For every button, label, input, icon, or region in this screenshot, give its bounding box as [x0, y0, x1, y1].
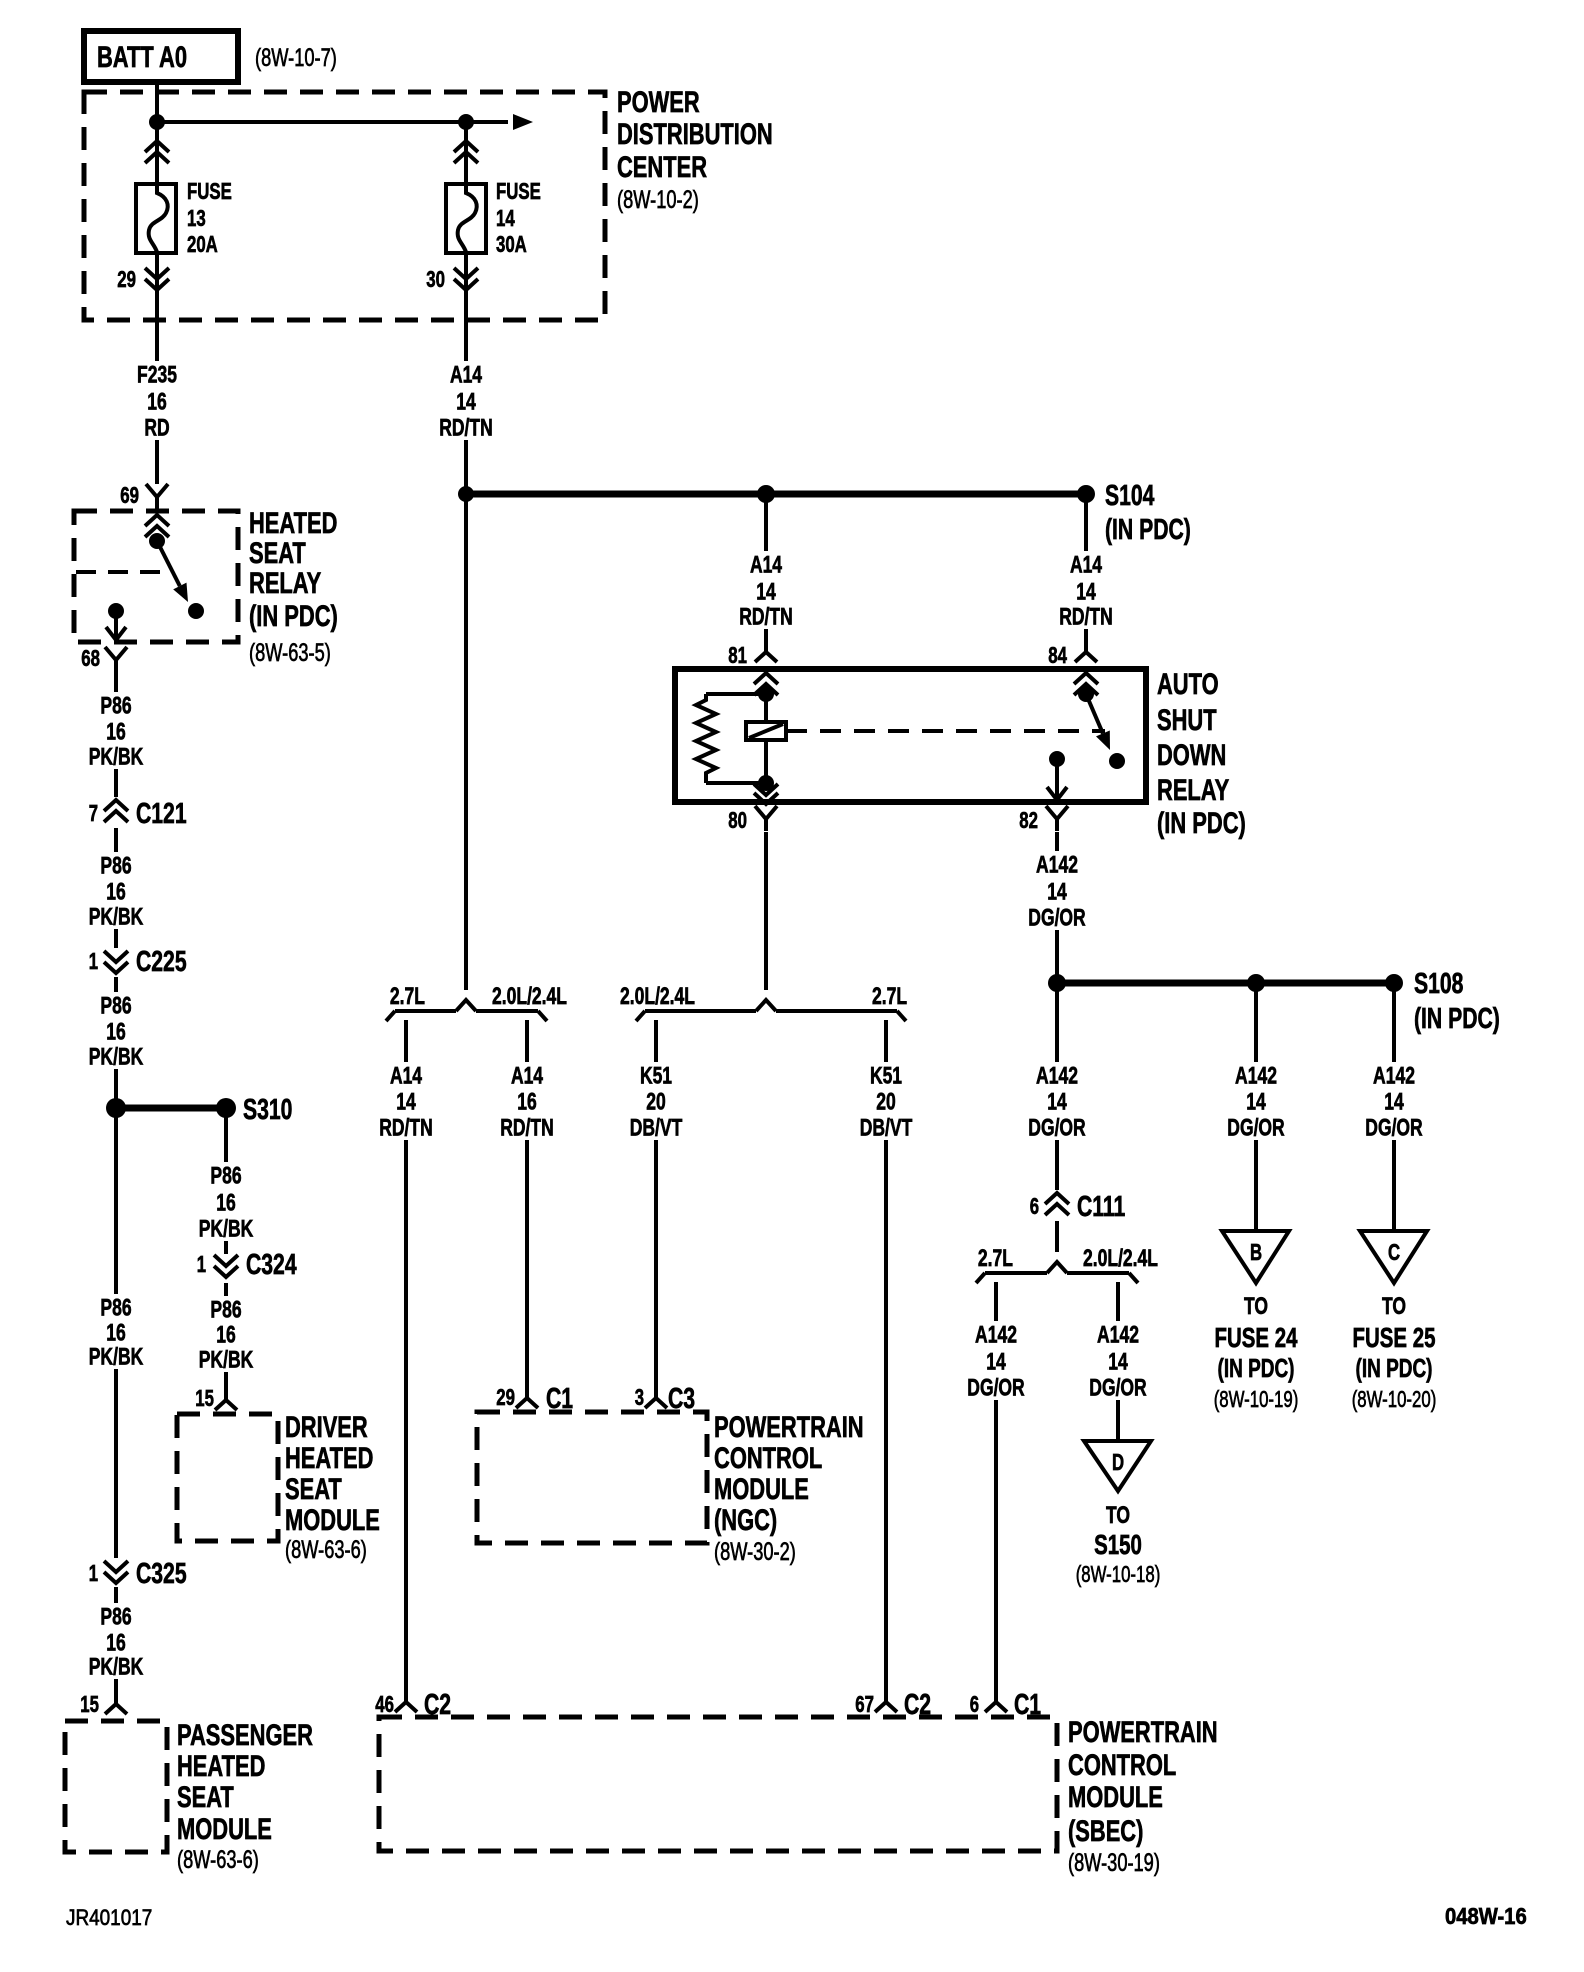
splice S108 bus	[1057, 980, 1394, 987]
svg-text:S108: S108	[1414, 968, 1463, 1000]
svg-text:P86: P86	[210, 1296, 241, 1323]
svg-text:(IN PDC): (IN PDC)	[249, 600, 338, 633]
node junction right fuse	[458, 114, 474, 130]
svg-text:DG/OR: DG/OR	[1028, 1114, 1085, 1141]
svg-text:14: 14	[756, 578, 776, 605]
svg-text:16: 16	[106, 1018, 126, 1045]
svg-text:(SBEC): (SBEC)	[1068, 1815, 1143, 1848]
svg-text:14: 14	[1384, 1088, 1404, 1115]
relay mechanical link dashed	[76, 570, 172, 574]
svg-text:(8W-30-19): (8W-30-19)	[1068, 1849, 1160, 1877]
pin 82	[1019, 806, 1068, 833]
svg-text:16: 16	[216, 1321, 236, 1348]
fuse F13	[136, 184, 176, 253]
svg-text:MODULE: MODULE	[1068, 1781, 1163, 1814]
svg-text:PK/BK: PK/BK	[199, 1215, 254, 1242]
svg-text:PK/BK: PK/BK	[89, 1653, 144, 1680]
wire label F235 16 RD	[133, 361, 181, 441]
svg-text:BATT A0: BATT A0	[97, 41, 187, 74]
fuse 13 label	[187, 178, 232, 257]
pin 29 chevrons	[117, 266, 169, 292]
node S108 a	[1048, 974, 1066, 992]
pin 29 C1	[496, 1383, 573, 1415]
power distribution center box	[84, 92, 605, 320]
svg-text:C225: C225	[136, 946, 187, 978]
engine label 2.7L first	[390, 983, 425, 1010]
svg-text:(8W-10-18): (8W-10-18)	[1076, 1561, 1161, 1587]
wire F235 PDC to relay pin 69	[155, 320, 159, 484]
wire label P86 16 PK/BK (5)	[85, 1603, 148, 1680]
svg-text:1: 1	[89, 1560, 98, 1586]
svg-text:16: 16	[106, 1319, 126, 1346]
svg-text:2.7L: 2.7L	[390, 983, 425, 1010]
passenger heated seat module label	[177, 1719, 313, 1874]
node A14 junction	[458, 486, 474, 502]
wire label P86 16 PK/BK (2)	[85, 852, 148, 930]
engine label 2.0L/2.4L right	[1083, 1245, 1158, 1272]
wire label A14 14 RD/TN (sbec)	[375, 1062, 437, 1141]
svg-text:RD/TN: RD/TN	[1059, 603, 1113, 630]
engine label 2.7L right	[872, 983, 907, 1010]
svg-text:DG/OR: DG/OR	[1365, 1114, 1422, 1141]
svg-text:F235: F235	[137, 361, 177, 388]
svg-text:14: 14	[396, 1088, 416, 1115]
asd pin 80 exit chevrons	[754, 784, 778, 804]
off-page connector C	[1360, 1231, 1427, 1283]
svg-text:(8W-30-2): (8W-30-2)	[714, 1538, 796, 1566]
off-page connector D	[1084, 1441, 1151, 1491]
svg-text:POWERTRAIN: POWERTRAIN	[714, 1411, 864, 1444]
svg-text:69: 69	[120, 482, 139, 508]
svg-text:82: 82	[1019, 807, 1038, 833]
relay output arrow to pin 68	[106, 611, 126, 640]
svg-text:FUSE: FUSE	[496, 178, 541, 204]
svg-text:DG/OR: DG/OR	[967, 1374, 1024, 1401]
svg-text:16: 16	[106, 1629, 126, 1656]
wire PDC bus	[157, 114, 533, 130]
svg-text:20: 20	[876, 1088, 896, 1115]
svg-text:MODULE: MODULE	[714, 1473, 809, 1506]
off-page B label	[1214, 1293, 1299, 1412]
svg-text:30A: 30A	[496, 231, 527, 257]
svg-text:RD/TN: RD/TN	[500, 1114, 554, 1141]
pin 3 C3	[635, 1383, 695, 1415]
wire label P86 16 PK/BK (1)	[85, 692, 148, 770]
svg-text:20: 20	[646, 1088, 666, 1115]
wire A14 S104 to split	[464, 494, 468, 990]
svg-text:(IN PDC): (IN PDC)	[1414, 1003, 1500, 1035]
powertrain control module NGC box	[477, 1412, 707, 1543]
pin 46 C2	[375, 1688, 451, 1721]
svg-text:TO: TO	[1106, 1502, 1130, 1529]
auto shut down relay box	[675, 669, 1146, 802]
svg-text:29: 29	[496, 1384, 515, 1410]
svg-text:P86: P86	[100, 992, 131, 1019]
connector C225	[89, 946, 187, 978]
connector chevrons above fuse 14	[454, 141, 478, 163]
wire K51 to SBEC C2	[884, 1056, 888, 1688]
splice S310	[106, 1094, 292, 1126]
wire label K51 20 DB/VT (sbec)	[856, 1062, 917, 1141]
wire label P86 16 PK/BK (7)	[195, 1296, 258, 1373]
heated seat relay box	[74, 511, 238, 642]
svg-text:(IN PDC): (IN PDC)	[1356, 1353, 1433, 1383]
wire K51 pin 80 to split	[764, 832, 768, 990]
svg-text:14: 14	[1047, 878, 1067, 905]
svg-text:DG/OR: DG/OR	[1089, 1374, 1146, 1401]
svg-text:FUSE: FUSE	[187, 178, 232, 204]
wire label A14 14 RD/TN (81)	[735, 551, 797, 630]
svg-text:DG/OR: DG/OR	[1227, 1114, 1284, 1141]
off-page connector B	[1222, 1231, 1289, 1283]
svg-text:2.0L/2.4L: 2.0L/2.4L	[492, 983, 567, 1010]
splice S108 label	[1414, 968, 1500, 1035]
driver heated seat module box	[177, 1414, 278, 1541]
svg-text:S104: S104	[1105, 480, 1154, 512]
relay pin 69 entry chevrons	[145, 515, 169, 537]
svg-text:16: 16	[106, 878, 126, 905]
driver heated seat module label	[285, 1411, 380, 1564]
svg-text:SEAT: SEAT	[177, 1781, 234, 1814]
svg-text:(8W-63-6): (8W-63-6)	[285, 1536, 367, 1564]
svg-text:16: 16	[106, 718, 126, 745]
svg-text:14: 14	[986, 1348, 1006, 1375]
wire A142 to triangle C	[1392, 983, 1396, 1231]
pin 6 C1	[970, 1688, 1041, 1721]
svg-text:(IN PDC): (IN PDC)	[1218, 1353, 1295, 1383]
wire P86 S310 to driver module	[224, 1108, 228, 1386]
pin 69	[120, 482, 168, 509]
wire P86 relay to S310	[114, 672, 118, 1108]
svg-text:PK/BK: PK/BK	[89, 1343, 144, 1370]
svg-text:3: 3	[635, 1384, 644, 1410]
svg-text:SEAT: SEAT	[249, 537, 306, 570]
svg-text:(IN PDC): (IN PDC)	[1157, 807, 1246, 840]
svg-text:67: 67	[855, 1691, 874, 1717]
svg-text:14: 14	[1047, 1088, 1067, 1115]
svg-text:RELAY: RELAY	[249, 567, 321, 600]
wire A142 to SBEC C1	[994, 1318, 998, 1688]
svg-text:(8W-63-5): (8W-63-5)	[249, 639, 331, 667]
svg-text:P86: P86	[100, 1294, 131, 1321]
svg-text:29: 29	[117, 266, 136, 292]
svg-text:2.7L: 2.7L	[872, 983, 907, 1010]
wire label A14 14 RD/TN (pdc)	[435, 361, 497, 441]
svg-text:PK/BK: PK/BK	[89, 1043, 144, 1070]
wire node to fuse 14	[464, 122, 468, 184]
svg-text:C: C	[1388, 1239, 1400, 1265]
svg-text:(IN PDC): (IN PDC)	[1105, 514, 1191, 546]
svg-text:K51: K51	[640, 1062, 672, 1089]
svg-text:K51: K51	[870, 1062, 902, 1089]
svg-text:DRIVER: DRIVER	[285, 1411, 368, 1444]
svg-text:A142: A142	[1097, 1321, 1139, 1348]
wire label A142 14 DG/OR (c)	[1361, 1062, 1426, 1141]
svg-text:S310: S310	[243, 1094, 292, 1126]
relay common contact dot	[149, 533, 165, 549]
engine split K51	[636, 1000, 906, 1056]
page reference (8W-10-7)	[255, 44, 337, 72]
svg-text:A14: A14	[511, 1062, 544, 1089]
svg-text:(8W-10-20): (8W-10-20)	[1352, 1386, 1437, 1412]
wire K51 to NGC C3	[654, 1056, 658, 1384]
svg-text:14: 14	[456, 388, 476, 415]
svg-text:CONTROL: CONTROL	[714, 1442, 822, 1475]
footer JR401017	[66, 1905, 152, 1930]
svg-text:1: 1	[89, 948, 98, 974]
svg-text:DOWN: DOWN	[1157, 739, 1226, 772]
node S104	[1077, 485, 1095, 503]
svg-text:PASSENGER: PASSENGER	[177, 1719, 313, 1752]
svg-text:MODULE: MODULE	[285, 1504, 380, 1537]
svg-text:TO: TO	[1382, 1293, 1406, 1320]
fuse 14 label	[496, 178, 541, 257]
svg-text:DB/VT: DB/VT	[630, 1114, 683, 1141]
svg-text:1: 1	[197, 1251, 206, 1277]
svg-text:POWERTRAIN: POWERTRAIN	[1068, 1716, 1218, 1749]
svg-text:JR401017: JR401017	[66, 1905, 152, 1930]
svg-text:30: 30	[426, 266, 445, 292]
svg-text:16: 16	[216, 1189, 236, 1216]
svg-text:PK/BK: PK/BK	[199, 1346, 254, 1373]
wire A142 to triangle B	[1254, 983, 1258, 1231]
relay switch arm	[157, 541, 188, 602]
wire label P86 16 PK/BK (6)	[195, 1162, 258, 1242]
engine label 2.7L left	[978, 1245, 1013, 1272]
asd switch top dot	[1078, 686, 1094, 702]
wire A14 to SBEC C2	[404, 1056, 408, 1688]
powertrain control module SBEC label	[1068, 1716, 1218, 1877]
svg-text:14: 14	[1246, 1088, 1266, 1115]
svg-text:13: 13	[187, 205, 206, 231]
wire label A142 14 DG/OR (sbec)	[963, 1321, 1028, 1401]
pin 84	[1048, 638, 1097, 668]
svg-text:A142: A142	[1036, 851, 1078, 878]
wire BATT A0 to node	[155, 82, 159, 122]
svg-text:RD/TN: RD/TN	[739, 603, 793, 630]
asd relay coil	[746, 722, 786, 740]
svg-text:6: 6	[1030, 1193, 1039, 1219]
pin 80	[728, 806, 777, 833]
asd coil bottom dot	[758, 775, 774, 791]
asd mechanical link dashed	[786, 729, 1105, 733]
wire label K51 20 DB/VT (ngc)	[626, 1062, 687, 1141]
wire A14 to NGC C1	[525, 1056, 529, 1384]
fuse F14	[446, 184, 486, 253]
svg-text:RELAY: RELAY	[1157, 774, 1229, 807]
svg-text:C324: C324	[246, 1249, 297, 1281]
svg-text:A142: A142	[1373, 1062, 1415, 1089]
wire fuse 14 to pin 30	[464, 253, 468, 320]
connector C121	[89, 797, 187, 830]
svg-text:14: 14	[1076, 578, 1096, 605]
wire node to fuse 13	[155, 122, 159, 184]
svg-text:DISTRIBUTION: DISTRIBUTION	[617, 118, 773, 151]
svg-text:POWER: POWER	[617, 86, 700, 119]
asd switch NO dot	[1109, 753, 1125, 769]
svg-text:DB/VT: DB/VT	[860, 1114, 913, 1141]
svg-text:SHUT: SHUT	[1157, 704, 1217, 737]
engine split A14	[386, 1000, 547, 1056]
svg-text:15: 15	[80, 1691, 99, 1717]
svg-text:6: 6	[970, 1691, 979, 1717]
node S104 branch 81	[757, 485, 775, 503]
svg-text:P86: P86	[100, 1603, 131, 1630]
splice S104 bus	[466, 491, 1086, 498]
splice S104 label	[1105, 480, 1191, 546]
svg-text:80: 80	[728, 807, 747, 833]
wire A14 to pin 84	[1084, 494, 1088, 638]
svg-text:A142: A142	[1036, 1062, 1078, 1089]
wire label A142 14 DG/OR (d)	[1085, 1321, 1150, 1401]
svg-text:S150: S150	[1094, 1529, 1142, 1560]
svg-text:RD/TN: RD/TN	[379, 1114, 433, 1141]
svg-text:HEATED: HEATED	[249, 507, 337, 540]
svg-text:81: 81	[728, 642, 747, 668]
svg-text:FUSE 24: FUSE 24	[1215, 1322, 1298, 1353]
svg-text:SEAT: SEAT	[285, 1473, 342, 1506]
svg-text:HEATED: HEATED	[177, 1750, 265, 1783]
svg-text:TO: TO	[1244, 1293, 1268, 1320]
asd pin 82 arrow	[1047, 759, 1067, 800]
svg-text:(8W-10-7): (8W-10-7)	[255, 44, 337, 72]
wire label A142 14 DG/OR (c111)	[1024, 1062, 1089, 1141]
svg-text:(8W-10-2): (8W-10-2)	[617, 186, 699, 214]
engine label 2.0L/2.4L left	[620, 983, 695, 1010]
connector C325	[89, 1558, 187, 1590]
svg-text:048W-16: 048W-16	[1445, 1903, 1527, 1929]
power distribution center label	[617, 86, 773, 214]
wire A142 to triangle D	[1116, 1318, 1120, 1441]
wire A14 PDC to S104	[464, 320, 468, 494]
svg-text:A142: A142	[975, 1321, 1017, 1348]
heated seat relay label	[249, 507, 338, 667]
svg-text:46: 46	[375, 1691, 394, 1717]
svg-text:C121: C121	[136, 798, 187, 830]
svg-text:PK/BK: PK/BK	[89, 903, 144, 930]
svg-text:A14: A14	[750, 551, 783, 578]
wire fuse 13 to pin 29	[155, 253, 159, 320]
wire label A14 16 RD/TN (ngc)	[496, 1062, 558, 1141]
svg-text:(8W-63-6): (8W-63-6)	[177, 1846, 259, 1874]
svg-text:7: 7	[89, 800, 98, 826]
asd coil wire	[764, 694, 768, 783]
svg-text:CENTER: CENTER	[617, 151, 707, 184]
battery feed box BATT A0	[84, 31, 238, 82]
engine split A142	[976, 1262, 1138, 1318]
asd coil top dot	[758, 686, 774, 702]
svg-text:D: D	[1112, 1449, 1124, 1475]
wire label P86 16 PK/BK (3)	[85, 992, 148, 1070]
wire A142 pin 82 to S108	[1055, 832, 1059, 983]
passenger heated seat module box	[65, 1721, 167, 1852]
svg-text:16: 16	[147, 388, 167, 415]
svg-text:14: 14	[496, 205, 515, 231]
pin 68	[81, 645, 127, 672]
svg-text:P86: P86	[210, 1162, 241, 1189]
svg-text:PK/BK: PK/BK	[89, 743, 144, 770]
wire label P86 16 PK/BK (4)	[85, 1294, 148, 1370]
relay output contact dot	[108, 603, 124, 619]
svg-text:P86: P86	[100, 852, 131, 879]
svg-text:20A: 20A	[187, 231, 218, 257]
footer 048W-16	[1445, 1903, 1527, 1929]
svg-text:RD: RD	[144, 414, 169, 441]
pin 67 C2	[855, 1688, 931, 1721]
svg-text:2.0L/2.4L: 2.0L/2.4L	[1083, 1245, 1158, 1272]
engine label 2.0L/2.4L first	[492, 983, 567, 1010]
wire label A142 14 DG/OR (82)	[1024, 851, 1089, 931]
svg-text:DG/OR: DG/OR	[1028, 904, 1085, 931]
svg-text:MODULE: MODULE	[177, 1813, 272, 1846]
node S108 b	[1247, 974, 1265, 992]
pin 15 passenger	[80, 1690, 127, 1717]
node S108 c	[1385, 974, 1403, 992]
svg-text:A14: A14	[390, 1062, 423, 1089]
svg-text:68: 68	[81, 645, 100, 671]
off-page D label	[1076, 1502, 1161, 1587]
asd resistor	[696, 694, 766, 783]
asd pin 82 dot	[1049, 751, 1065, 767]
svg-text:2.0L/2.4L: 2.0L/2.4L	[620, 983, 695, 1010]
node junction left fuse	[149, 114, 165, 130]
svg-text:15: 15	[195, 1385, 214, 1411]
off-page C label	[1352, 1293, 1437, 1412]
pin 81	[728, 638, 777, 668]
svg-text:RD/TN: RD/TN	[439, 414, 493, 441]
asd switch arm	[1086, 694, 1110, 750]
svg-text:A142: A142	[1235, 1062, 1277, 1089]
svg-text:C111: C111	[1077, 1191, 1125, 1223]
svg-text:84: 84	[1048, 642, 1067, 668]
svg-text:HEATED: HEATED	[285, 1442, 373, 1475]
svg-text:AUTO: AUTO	[1157, 668, 1219, 701]
wire A14 to pin 81	[764, 494, 768, 638]
wire C111 to split	[1055, 1221, 1059, 1252]
wire P86 S310 to passenger module	[114, 1108, 118, 1690]
asd pin 81 entry chevrons	[754, 673, 778, 695]
auto shut down relay label	[1157, 668, 1246, 840]
svg-text:CONTROL: CONTROL	[1068, 1749, 1176, 1782]
svg-text:A14: A14	[1070, 551, 1103, 578]
relay NO contact dot	[188, 603, 204, 619]
pin 15 driver	[195, 1385, 237, 1411]
svg-text:P86: P86	[100, 692, 131, 719]
pin 30 chevrons	[426, 266, 478, 292]
wire label A142 14 DG/OR (b)	[1223, 1062, 1288, 1141]
svg-text:A14: A14	[450, 361, 483, 388]
powertrain control module SBEC box	[379, 1717, 1057, 1851]
svg-text:B: B	[1250, 1239, 1262, 1265]
wire A142 S108 to C111	[1055, 983, 1059, 1190]
wire label A14 14 RD/TN (84)	[1055, 551, 1117, 630]
svg-text:(8W-10-19): (8W-10-19)	[1214, 1386, 1299, 1412]
powertrain control module NGC label	[714, 1411, 864, 1566]
svg-text:14: 14	[1108, 1348, 1128, 1375]
connector C111	[1030, 1190, 1126, 1223]
connector chevrons above fuse 13	[145, 141, 169, 163]
svg-text:16: 16	[517, 1088, 537, 1115]
svg-text:2.7L: 2.7L	[978, 1245, 1013, 1272]
svg-text:C325: C325	[136, 1558, 187, 1590]
svg-text:FUSE 25: FUSE 25	[1353, 1322, 1436, 1353]
svg-text:(NGC): (NGC)	[714, 1504, 777, 1537]
connector C324	[197, 1249, 297, 1283]
asd pin 84 entry chevrons	[1074, 673, 1098, 695]
